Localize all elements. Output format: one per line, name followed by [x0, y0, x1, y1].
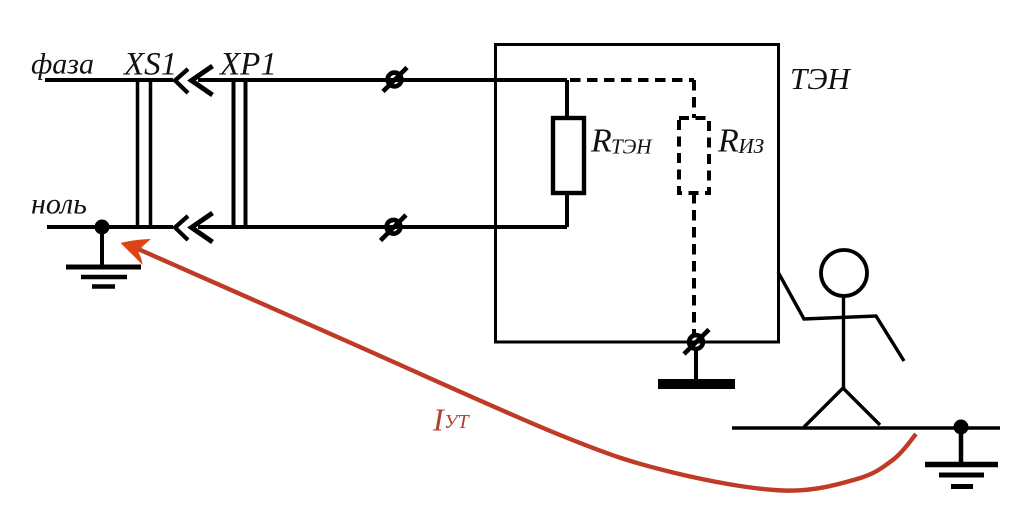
svg-text:R: R: [590, 123, 612, 160]
svg-text:ТЭН: ТЭН: [790, 61, 852, 96]
svg-text:R: R: [717, 123, 739, 160]
svg-text:XS1: XS1: [122, 47, 177, 83]
svg-text:ноль: ноль: [31, 188, 87, 221]
svg-text:ИЗ: ИЗ: [738, 134, 765, 158]
svg-text:XP1: XP1: [218, 47, 277, 83]
svg-text:УТ: УТ: [444, 411, 470, 433]
svg-text:ТЭН: ТЭН: [611, 135, 653, 159]
svg-text:фаза: фаза: [31, 48, 94, 81]
